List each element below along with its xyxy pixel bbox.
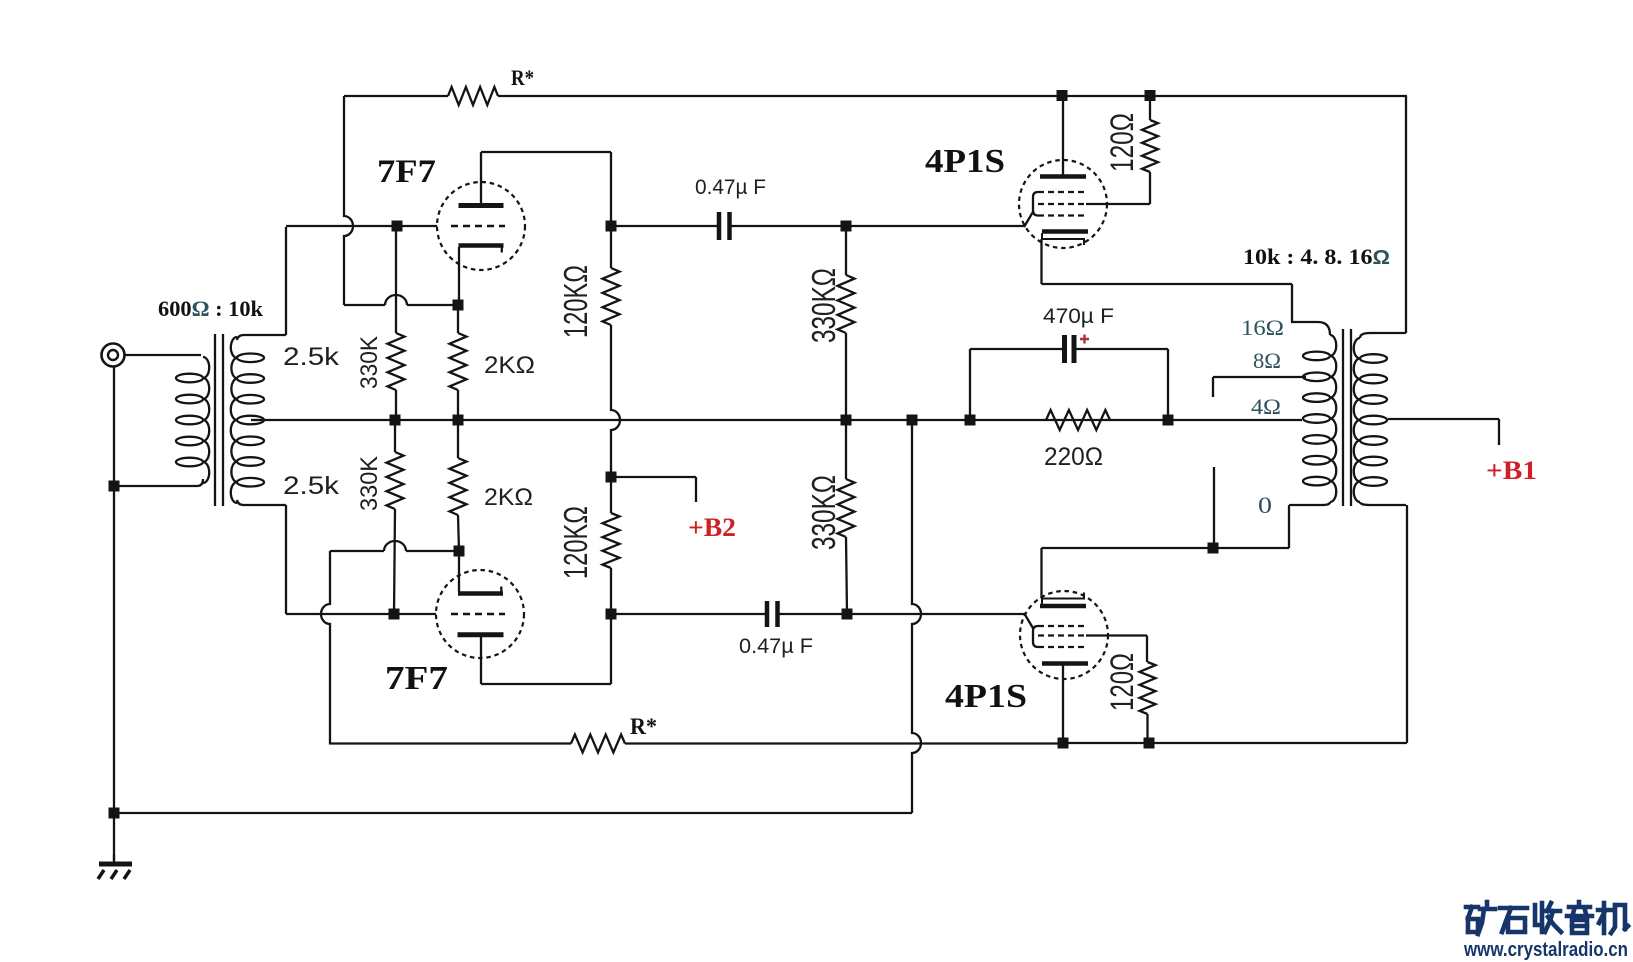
label C3 470uF: [1043, 304, 1114, 328]
svg-text:0: 0: [1258, 493, 1272, 518]
label 2.5k lower: [283, 472, 340, 500]
tube V4 cathode: [1040, 604, 1086, 608]
node V1 grid: [392, 221, 403, 232]
label 330Kohm lower: [805, 475, 842, 550]
svg-text:7F7: 7F7: [385, 660, 448, 697]
svg-text:4P1S: 4P1S: [925, 143, 1005, 180]
tube V4 grid bracket: [1024, 613, 1038, 647]
node C2 grid junction: [842, 609, 853, 620]
svg-text:4P1S: 4P1S: [945, 678, 1027, 715]
wire T1 secondary top lead: [237, 227, 286, 340]
transformer T1 secondary winding: [231, 337, 264, 503]
resistor 120ohm lower: [1140, 662, 1156, 743]
resistor 330Kohm lower: [838, 420, 855, 614]
svg-text:R*: R*: [630, 714, 657, 739]
node bus ground branch: [907, 415, 918, 426]
label 120ohm upper: [1104, 113, 1140, 172]
tube V3 grid1: [1038, 191, 1086, 193]
svg-text:16Ω: 16Ω: [1241, 315, 1284, 340]
label 4P1S lower: [945, 678, 1027, 715]
label C2 0.47uF: [739, 634, 813, 658]
wire jack to T1 primary: [124, 354, 201, 356]
wire V4 screen lead: [1086, 636, 1147, 663]
wire T1 primary bottom lead: [114, 479, 203, 486]
label 8ohm: [1253, 348, 1281, 373]
label R* lower: [630, 714, 657, 739]
label 120ohm lower: [1104, 653, 1140, 711]
wire V4 plate rail: [1063, 742, 1407, 744]
svg-text:+B1: +B1: [1486, 456, 1537, 485]
svg-text:10k : 4. 8. 16Ω: 10k : 4. 8. 16Ω: [1243, 244, 1390, 269]
wire R* top left vertical: [344, 96, 353, 305]
label 16ohm: [1241, 315, 1284, 340]
node C1 grid junction: [841, 221, 852, 232]
label 4P1S upper: [925, 143, 1005, 180]
wire left ground rail vertical: [113, 366, 115, 860]
node bus C3 left: [965, 415, 976, 426]
tube V3 heater: [1042, 233, 1084, 245]
wire upper cathode link: [344, 295, 458, 305]
wire R* lower lead: [330, 742, 571, 744]
wire center bus: [264, 419, 1302, 421]
tube V3 4P1S envelope: [1019, 160, 1107, 248]
wire 0-tap stub: [1213, 467, 1215, 543]
svg-text:120Ω: 120Ω: [1104, 653, 1140, 711]
wire R* lower to output: [625, 742, 1063, 744]
svg-text:0.47µ F: 0.47µ F: [695, 175, 766, 199]
tube V4 heater: [1042, 593, 1084, 605]
label 330K upper: [356, 336, 383, 389]
label 0tap: [1258, 493, 1272, 518]
tube V4 grid1: [1038, 625, 1086, 627]
transformer T2 secondary winding: [1289, 322, 1336, 505]
tube V1 cathode: [459, 246, 504, 253]
tube V4 grid2: [1038, 634, 1086, 636]
svg-text:2.5k: 2.5k: [283, 343, 340, 371]
resistor 2K lower: [450, 420, 467, 551]
node V1 plate: [606, 221, 617, 232]
wire C2 to V4 grid: [780, 613, 1026, 615]
wire V4 cathode lead: [1040, 548, 1042, 599]
tube V4 grid3: [1038, 646, 1086, 648]
svg-text:+B2: +B2: [688, 513, 736, 542]
resistor R* lower: [571, 735, 625, 753]
label 2K upper: [484, 352, 535, 379]
wire bottom rail: [114, 812, 912, 814]
resistor 330K upper: [388, 226, 405, 420]
label C1 0.47uF: [695, 175, 766, 199]
node bus 2K: [453, 415, 464, 426]
label 600ohm-10k: [158, 296, 264, 321]
svg-text:120Ω: 120Ω: [1104, 113, 1140, 172]
wire V2 plate lead: [481, 614, 611, 684]
wire T1 secondary center tap to bus: [251, 419, 264, 421]
node T1 primary bottom: [109, 481, 120, 492]
wire 8ohm tap: [1213, 377, 1306, 397]
node bus 330Kohm: [841, 415, 852, 426]
wire 0-tap corner: [1288, 505, 1290, 548]
node V4 plate: [1058, 738, 1069, 749]
wire R* lower left vertical: [321, 551, 330, 745]
watermark crystalradio logo: [1466, 902, 1628, 934]
svg-text:2KΩ: 2KΩ: [484, 352, 535, 379]
label 2.5k upper: [283, 343, 340, 371]
wire T2 primary top: [1405, 96, 1407, 333]
wire T2 primary bottom: [1406, 505, 1408, 743]
wire V3 screen lead: [1086, 172, 1150, 204]
svg-text:330K: 330K: [356, 336, 383, 389]
tube V3 grid3: [1038, 214, 1086, 216]
label C3 plus: [1080, 335, 1089, 344]
wire V2 plate to C2: [611, 613, 765, 615]
label 120K upper: [557, 265, 594, 338]
node V2 plate: [606, 609, 617, 620]
transformer T2 core: [1343, 329, 1351, 506]
label +B2: [688, 513, 736, 542]
label 7F7 upper: [377, 154, 436, 190]
resistor R 220ohm: [1046, 410, 1110, 430]
node 0-tap junction: [1208, 543, 1219, 554]
svg-text:7F7: 7F7: [377, 154, 436, 190]
tube V2 grid: [451, 613, 505, 615]
svg-text:600Ω : 10k: 600Ω : 10k: [158, 296, 264, 321]
svg-text:330K: 330K: [356, 456, 383, 511]
wire V1 plate to C1: [611, 225, 717, 227]
wire +B2 stub: [611, 477, 696, 502]
svg-text:120KΩ: 120KΩ: [557, 265, 594, 338]
svg-text:470µ F: 470µ F: [1043, 304, 1114, 328]
tube V4 plate: [1042, 661, 1088, 666]
svg-text:www.crystalradio.cn: www.crystalradio.cn: [1463, 939, 1628, 961]
node V2 grid: [389, 609, 400, 620]
wire C1 to V3 grid: [732, 225, 1026, 227]
resistor 120ohm upper: [1142, 95, 1158, 172]
wire lower cathode link: [330, 541, 459, 551]
wire C3 left lead: [970, 349, 1062, 420]
wire T1 secondary bottom lead: [237, 500, 286, 614]
tube V4 4P1S envelope: [1020, 591, 1108, 679]
tube V3 cathode: [1042, 229, 1088, 233]
wire V2 cathode lead: [458, 551, 460, 592]
node V2 cathode: [454, 546, 465, 557]
wire V3 cathode lead: [1042, 239, 1293, 322]
resistor 120K upper: [603, 226, 621, 477]
transformer T2 primary winding: [1354, 333, 1406, 505]
svg-text:2KΩ: 2KΩ: [484, 484, 533, 511]
svg-text:330KΩ: 330KΩ: [805, 268, 842, 343]
svg-text:2.5k: 2.5k: [283, 472, 340, 500]
tube V1 grid: [451, 225, 505, 227]
tube V1 7F7 envelope: [437, 182, 525, 270]
node ground rail: [109, 808, 120, 819]
label 330K lower: [356, 456, 383, 511]
label 7F7 lower: [385, 660, 448, 697]
label 2K lower: [484, 484, 533, 511]
resistor 120K lower: [603, 477, 620, 614]
tube V2 cathode: [458, 587, 503, 594]
svg-text:0.47µ F: 0.47µ F: [739, 634, 813, 658]
node bus 330K: [390, 415, 401, 426]
label 120K lower: [557, 506, 594, 579]
tube V3 grid2: [1038, 203, 1086, 205]
label 4ohm: [1251, 394, 1281, 419]
transformer T1 primary winding: [176, 357, 209, 483]
node +B2: [606, 472, 617, 483]
wire top rail left: [344, 95, 448, 97]
label +B1: [1486, 456, 1537, 485]
svg-text:220Ω: 220Ω: [1044, 443, 1103, 471]
input jack J1: [102, 344, 125, 367]
svg-text:120KΩ: 120KΩ: [557, 506, 594, 579]
capacitor C3 470uF: [1065, 335, 1075, 363]
svg-text:330KΩ: 330KΩ: [805, 475, 842, 550]
tube V3 grid bracket: [1024, 192, 1038, 227]
resistor 2K upper: [450, 305, 467, 420]
wire T1 secondary top to V1 grid: [286, 225, 437, 227]
resistor R* top: [448, 87, 498, 105]
node V1 cathode: [453, 300, 464, 311]
tube V2 7F7 envelope: [436, 570, 524, 658]
transformer T1 core: [215, 334, 223, 506]
wire V4 plate lead: [1062, 665, 1064, 743]
node bus C3 right: [1163, 415, 1174, 426]
wire V3 plate lead: [1062, 95, 1064, 175]
resistor 330Kohm upper: [838, 226, 855, 420]
node V3 plate rail: [1057, 90, 1068, 101]
ground symbol: [98, 855, 132, 879]
wire C3 right lead: [1076, 349, 1168, 420]
tube V3 plate: [1040, 174, 1086, 179]
label 10k-4-8-16: [1243, 244, 1390, 269]
label R* top: [511, 65, 534, 90]
tube V2 plate: [458, 632, 504, 637]
label 330Kohm upper: [805, 268, 842, 343]
svg-text:R*: R*: [511, 65, 534, 90]
wire top rail: [498, 95, 1407, 97]
capacitor C1 0.47uF: [719, 212, 730, 240]
wire +B1 tap: [1388, 419, 1499, 445]
svg-text:4Ω: 4Ω: [1251, 394, 1281, 419]
resistor 330K lower: [387, 420, 404, 614]
svg-text:8Ω: 8Ω: [1253, 348, 1281, 373]
tube V1 plate: [459, 203, 504, 208]
label 220ohm: [1044, 443, 1103, 471]
wire V1 plate lead: [481, 152, 611, 226]
capacitor C2 0.47uF: [767, 601, 778, 627]
wire V1 cathode lead: [458, 247, 460, 305]
watermark url: [1463, 939, 1628, 961]
wire T1 bottom to V2 grid: [286, 613, 436, 615]
wire ground branch vertical: [912, 420, 921, 813]
wire V4 cathode to 0 tap: [1042, 547, 1290, 549]
node 120ohm lower: [1144, 738, 1155, 749]
node 120ohm rail: [1145, 90, 1156, 101]
